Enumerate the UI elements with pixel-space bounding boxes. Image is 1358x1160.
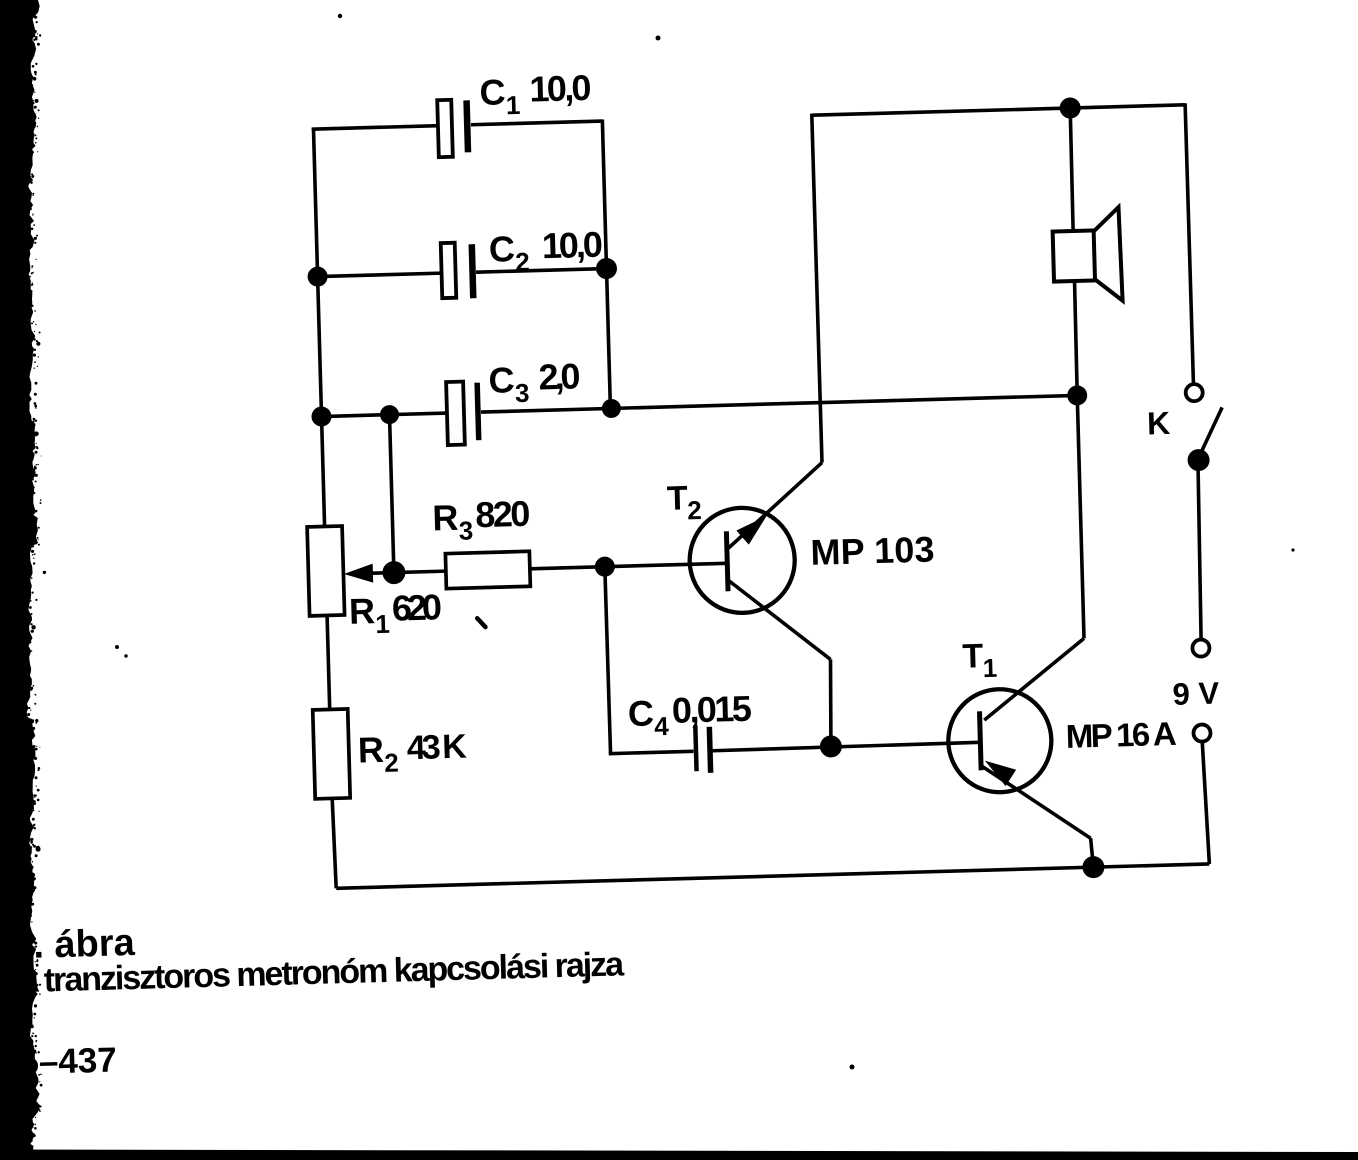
wire: bottom rail <box>336 864 1209 888</box>
svg-text:C: C <box>627 692 654 734</box>
capacitor C2 right plate <box>472 244 474 298</box>
wire: C2 row right segment <box>476 269 606 273</box>
svg-text:R: R <box>348 590 375 632</box>
node: C3 row dot at wiper branch <box>380 405 400 425</box>
speaker horn <box>1093 207 1123 301</box>
potentiometer R1 body <box>307 526 344 616</box>
wire: T2 collector vertical down to C4 node <box>829 659 833 746</box>
wire: C4 row left segment <box>609 751 694 753</box>
node: C2 right junction dot <box>596 258 618 280</box>
transistor T2 emitter diagonal <box>726 463 824 549</box>
wire: battery terminal down to bottom-right corner <box>1202 741 1209 864</box>
svg-text:C: C <box>479 71 506 113</box>
transistor T2 collector diagonal <box>728 577 830 662</box>
transistor T1 circle <box>947 688 1053 794</box>
battery lower terminal circle <box>1193 724 1210 741</box>
svg-text:1: 1 <box>982 653 997 683</box>
wire: C2 row left segment <box>318 273 442 276</box>
wire: C3 row left segment <box>322 413 447 417</box>
wire: wiper horizontal into R1 <box>368 571 394 575</box>
wire: T1 collector vertical up to speaker node <box>1077 395 1084 638</box>
resistor R3 body <box>445 551 530 588</box>
svg-text:3: 3 <box>458 515 473 545</box>
transistor T2 base bar <box>726 531 728 591</box>
svg-text:1: 1 <box>375 609 390 639</box>
svg-text:K: K <box>1147 405 1171 442</box>
svg-text:C: C <box>488 228 515 270</box>
wire: base row from wiper dot to R3 <box>394 571 446 572</box>
battery upper terminal circle <box>1192 639 1209 656</box>
wire: C4 row right segment to T1 base <box>712 742 979 750</box>
wire: capacitor loop right vertical <box>602 120 610 409</box>
svg-text:MP 16 A: MP 16 A <box>1065 715 1177 755</box>
svg-text:1: 1 <box>505 90 520 120</box>
scan speck <box>656 36 661 41</box>
svg-text:620: 620 <box>391 586 442 628</box>
wire: C4 branch vertical drop <box>605 567 611 754</box>
transistor T2 emitter arrowhead <box>736 516 767 545</box>
node: wiper junction dot <box>382 561 406 585</box>
wire: top rail <box>812 105 1185 115</box>
svg-text:820: 820 <box>475 493 531 536</box>
scan artifact: left black bar <box>0 0 40 1160</box>
svg-text:3: 3 <box>515 378 530 408</box>
svg-text:10,0: 10,0 <box>529 67 592 110</box>
stray mark below R3 <box>477 618 485 627</box>
wire: speaker lower vertical <box>1074 281 1078 395</box>
scan speck <box>115 645 119 649</box>
svg-text:0,015: 0,015 <box>671 688 752 731</box>
svg-text:MP 103: MP 103 <box>810 528 935 572</box>
capacitor C1 left plate (hollow rectangle) <box>437 100 453 157</box>
node: bottom rail / T1 emitter dot <box>1082 856 1105 879</box>
scan speck <box>338 14 342 18</box>
node: junction dot base row / C4 branch <box>595 556 616 577</box>
transistor T1 collector diagonal <box>982 638 1086 720</box>
transistor T1 emitter diagonal <box>982 763 1091 841</box>
svg-text:2: 2 <box>384 748 399 778</box>
capacitor C4 left plate <box>695 725 696 771</box>
svg-text:9 V: 9 V <box>1172 676 1220 712</box>
svg-text:43 K: 43 K <box>406 728 467 768</box>
capacitor C2 left plate (hollow rectangle) <box>441 243 457 298</box>
wire: top row of capacitor loop (C1 to right corner) <box>471 121 602 125</box>
switch K lever <box>1198 407 1224 457</box>
scan speck <box>850 1065 855 1070</box>
svg-text:2: 2 <box>687 495 702 525</box>
capacitor C3 right plate <box>477 383 479 440</box>
wire: left vertical rail (C-loop left side down to R1) <box>313 128 324 527</box>
capacitor C1 right plate <box>467 100 468 152</box>
wire: C3 row long right segment to speaker branch <box>481 395 1077 412</box>
wire: base row from R3 to T2 base <box>530 563 727 569</box>
node: top rail / speaker dot <box>1059 97 1081 119</box>
switch K top terminal circle <box>1185 384 1202 401</box>
svg-text:4: 4 <box>654 711 670 741</box>
wire: T2 emitter vertical up to top rail <box>812 114 822 463</box>
node: C3 row dot at loop right vertical <box>602 399 622 419</box>
svg-text:C: C <box>488 359 515 401</box>
node: junction dot T2 collector / C4 / T1 base <box>820 735 843 758</box>
svg-text:2: 2 <box>515 247 530 277</box>
transistor T1 base bar <box>980 711 982 770</box>
wire: speaker upper vertical <box>1070 108 1074 231</box>
svg-text:R: R <box>357 729 384 771</box>
transistor T1 emitter arrowhead <box>985 760 1017 787</box>
switch K pivot dot <box>1187 449 1210 472</box>
scan speck <box>1291 548 1294 551</box>
svg-text:R: R <box>432 497 459 539</box>
wire: switch to battery terminal <box>1196 465 1203 639</box>
resistor R2 body <box>313 709 350 799</box>
wire: R2 bottom to bottom-left corner <box>332 798 336 888</box>
capacitor C3 left plate (hollow rectangle) <box>446 382 465 445</box>
svg-text:T: T <box>962 637 984 676</box>
wire: R1 bottom to R2 top <box>327 615 330 709</box>
potentiometer R1 wiper arrowhead <box>344 564 374 584</box>
capacitor C4 right plate <box>709 727 710 773</box>
wire: right vertical from top rail to switch <box>1185 103 1193 384</box>
scan speck <box>124 654 127 657</box>
node: speaker bottom / C3 row / T1 collector dot <box>1067 385 1088 406</box>
wire: T1 emitter drop to bottom rail <box>1091 838 1094 867</box>
svg-text:10,0: 10,0 <box>541 224 603 267</box>
scan artifact: bottom black bar <box>0 1150 1358 1160</box>
wire: top row of capacitor loop (left segment to C1) <box>312 126 439 130</box>
svg-text:T: T <box>666 479 688 518</box>
speaker box <box>1053 230 1095 281</box>
node: C2 left junction dot <box>307 266 328 287</box>
node: C3 row left dot on left rail <box>311 406 332 427</box>
svg-text:2,0: 2,0 <box>538 355 581 397</box>
wire: wiper branch vertical <box>389 415 393 573</box>
transistor T2 circle <box>688 506 796 614</box>
